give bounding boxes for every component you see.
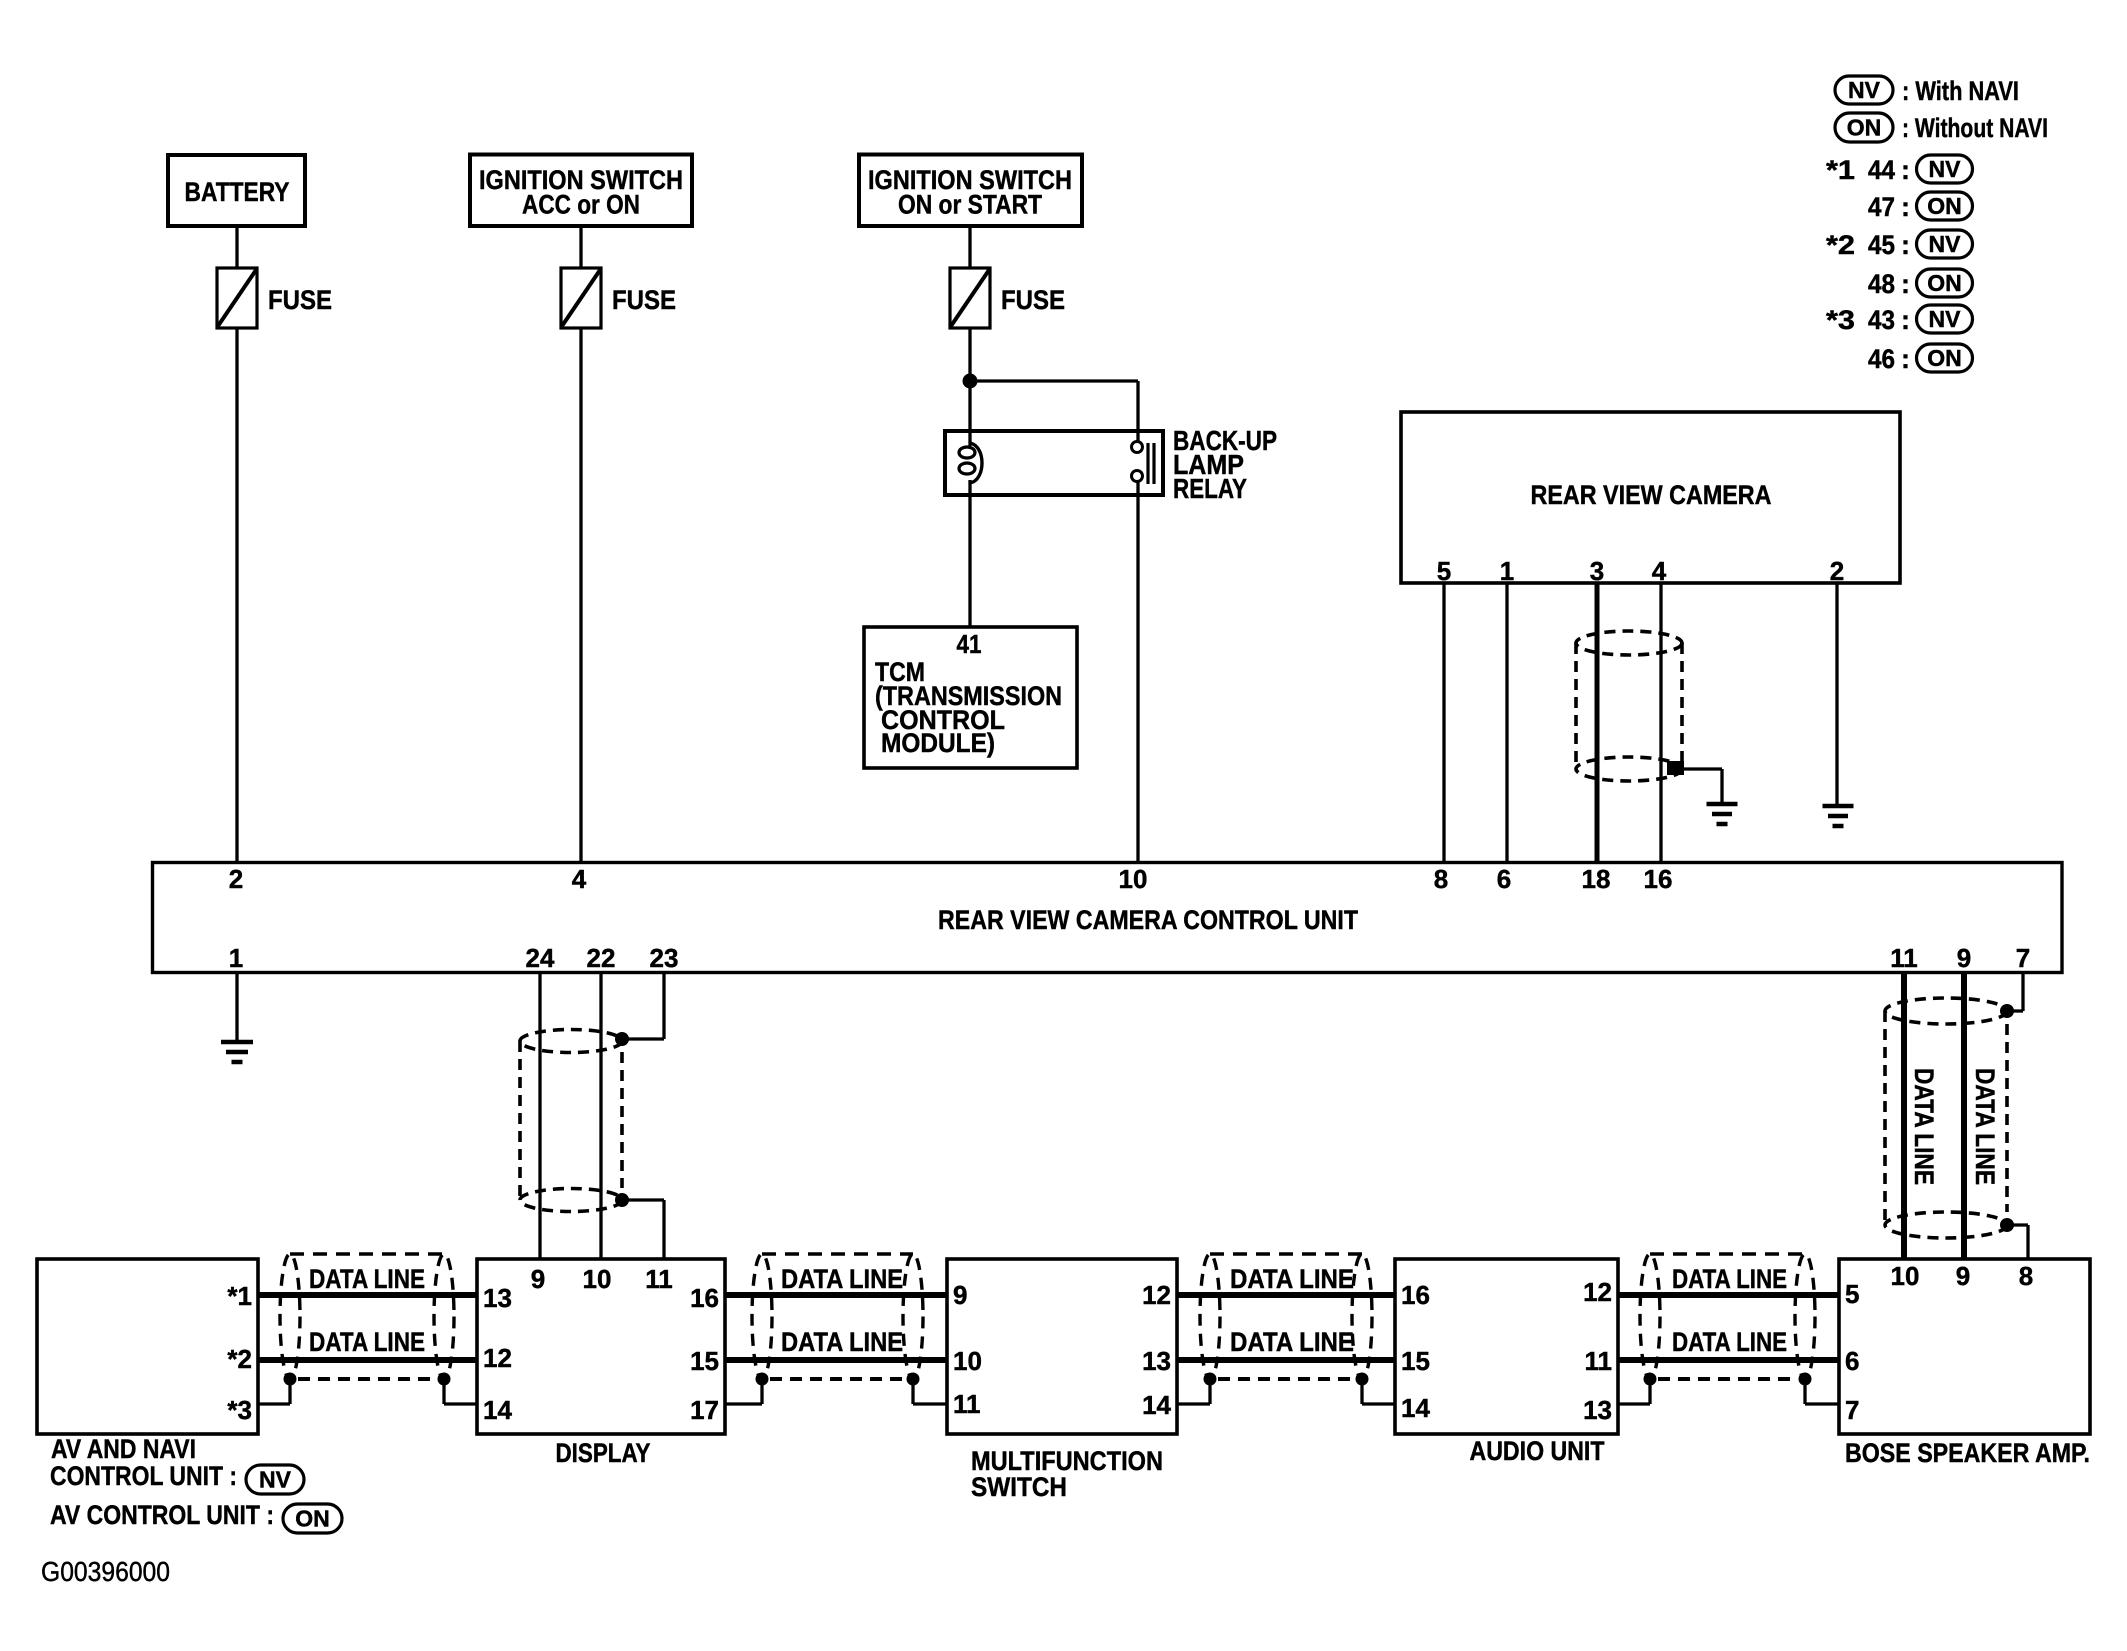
svg-text:BOSE SPEAKER AMP.: BOSE SPEAKER AMP. — [1845, 1438, 2090, 1468]
svg-text:16: 16 — [1644, 864, 1673, 894]
svg-text:8: 8 — [2019, 1261, 2033, 1291]
svg-text:DATA LINE: DATA LINE — [781, 1264, 903, 1294]
svg-text:12: 12 — [483, 1343, 512, 1373]
svg-text:ACC or ON: ACC or ON — [522, 190, 640, 220]
svg-text:13: 13 — [1142, 1346, 1171, 1376]
svg-text:REAR VIEW CAMERA: REAR VIEW CAMERA — [1531, 480, 1772, 510]
svg-text:5: 5 — [1845, 1279, 1859, 1309]
svg-text:NV: NV — [1929, 231, 1962, 257]
svg-text:*1: *1 — [1826, 155, 1855, 185]
svg-text:12: 12 — [1583, 1277, 1612, 1307]
svg-text:10: 10 — [953, 1346, 982, 1376]
svg-text:AV CONTROL UNIT :: AV CONTROL UNIT : — [50, 1500, 274, 1530]
svg-text:14: 14 — [1142, 1390, 1171, 1420]
svg-text:: With NAVI: : With NAVI — [1902, 76, 2019, 106]
svg-text:9: 9 — [1957, 943, 1971, 973]
svg-text::: : — [1901, 192, 1910, 222]
svg-text:*3: *3 — [227, 1395, 252, 1425]
svg-text:NV: NV — [1929, 156, 1962, 182]
svg-text:13: 13 — [483, 1283, 512, 1313]
svg-text:DATA LINE: DATA LINE — [781, 1327, 903, 1357]
svg-text:DATA LINE: DATA LINE — [1672, 1327, 1787, 1357]
svg-text:SWITCH: SWITCH — [971, 1472, 1067, 1502]
svg-text:41: 41 — [957, 629, 982, 659]
svg-text:48: 48 — [1868, 269, 1895, 299]
svg-text:ON: ON — [1927, 193, 1962, 219]
svg-text::: : — [1901, 269, 1910, 299]
svg-text:*1: *1 — [227, 1281, 252, 1311]
svg-text:16: 16 — [690, 1283, 719, 1313]
svg-text:2: 2 — [229, 864, 243, 894]
svg-text:10: 10 — [1119, 864, 1148, 894]
svg-text:NV: NV — [1929, 306, 1962, 332]
svg-text:11: 11 — [1585, 1346, 1613, 1376]
svg-text:NV: NV — [259, 1467, 292, 1493]
svg-text:DATA LINE: DATA LINE — [1230, 1327, 1354, 1357]
svg-text:24: 24 — [526, 943, 555, 973]
svg-text::: : — [1901, 305, 1910, 335]
svg-text:FUSE: FUSE — [612, 285, 676, 315]
svg-text:ON: ON — [1927, 270, 1962, 296]
svg-text:12: 12 — [1142, 1280, 1171, 1310]
svg-text:10: 10 — [1891, 1261, 1920, 1291]
svg-text:ON: ON — [295, 1506, 330, 1532]
svg-text:FUSE: FUSE — [1001, 285, 1065, 315]
svg-text:15: 15 — [1401, 1346, 1430, 1376]
svg-text:BATTERY: BATTERY — [185, 177, 290, 207]
svg-text:*2: *2 — [227, 1344, 252, 1374]
svg-text:4: 4 — [1652, 556, 1667, 586]
svg-text:*2: *2 — [1826, 230, 1855, 260]
svg-text:RELAY: RELAY — [1173, 473, 1247, 504]
svg-text:22: 22 — [587, 943, 616, 973]
svg-text::: : — [1901, 230, 1910, 260]
svg-text:1: 1 — [229, 943, 243, 973]
svg-text:43: 43 — [1868, 305, 1895, 335]
svg-text:NV: NV — [1848, 77, 1881, 103]
svg-text:DISPLAY: DISPLAY — [556, 1438, 651, 1468]
svg-text:*3: *3 — [1826, 305, 1855, 335]
svg-text:9: 9 — [953, 1280, 967, 1310]
svg-text:6: 6 — [1845, 1346, 1859, 1376]
svg-text:2: 2 — [1830, 556, 1844, 586]
svg-text:9: 9 — [531, 1264, 545, 1294]
svg-text:AV AND NAVI: AV AND NAVI — [51, 1434, 196, 1464]
svg-text:5: 5 — [1437, 556, 1451, 586]
svg-text:1: 1 — [1500, 556, 1514, 586]
svg-text::: : — [1901, 155, 1910, 185]
svg-text:3: 3 — [1590, 556, 1604, 586]
svg-text:FUSE: FUSE — [268, 285, 332, 315]
svg-text:9: 9 — [1956, 1261, 1970, 1291]
svg-text:16: 16 — [1401, 1280, 1430, 1310]
svg-text:DATA LINE: DATA LINE — [1970, 1068, 2000, 1185]
svg-text:: Without NAVI: : Without NAVI — [1902, 113, 2048, 143]
svg-text:18: 18 — [1582, 864, 1611, 894]
svg-text:15: 15 — [690, 1346, 719, 1376]
svg-text:44: 44 — [1868, 155, 1895, 185]
svg-text:45: 45 — [1868, 230, 1895, 260]
svg-text:14: 14 — [483, 1395, 512, 1425]
svg-text:ON or START: ON or START — [898, 190, 1042, 220]
svg-text:ON: ON — [1847, 115, 1882, 141]
svg-text:11: 11 — [645, 1264, 673, 1294]
svg-text:ON: ON — [1927, 345, 1962, 371]
svg-text:DATA LINE: DATA LINE — [309, 1264, 425, 1294]
svg-text:17: 17 — [690, 1395, 719, 1425]
svg-text:14: 14 — [1401, 1393, 1430, 1423]
svg-text:13: 13 — [1583, 1395, 1612, 1425]
svg-text:DATA LINE: DATA LINE — [1909, 1068, 1939, 1185]
svg-text:REAR VIEW CAMERA CONTROL UNIT: REAR VIEW CAMERA CONTROL UNIT — [938, 905, 1358, 935]
svg-text:11: 11 — [1890, 943, 1918, 973]
svg-text:23: 23 — [650, 943, 679, 973]
svg-text:CONTROL UNIT :: CONTROL UNIT : — [50, 1461, 237, 1491]
svg-text::: : — [1901, 344, 1910, 374]
svg-text:G00396000: G00396000 — [41, 1556, 170, 1587]
svg-text:DATA LINE: DATA LINE — [1672, 1264, 1787, 1294]
svg-text:8: 8 — [1434, 864, 1448, 894]
svg-text:46: 46 — [1868, 344, 1895, 374]
svg-text:DATA LINE: DATA LINE — [1230, 1264, 1354, 1294]
svg-text:AUDIO UNIT: AUDIO UNIT — [1470, 1436, 1605, 1466]
svg-text:47: 47 — [1868, 192, 1895, 222]
svg-text:6: 6 — [1497, 864, 1511, 894]
svg-text:MODULE): MODULE) — [881, 728, 995, 758]
svg-text:10: 10 — [583, 1264, 612, 1294]
svg-text:11: 11 — [953, 1389, 981, 1419]
svg-text:4: 4 — [572, 864, 587, 894]
svg-text:7: 7 — [2016, 943, 2030, 973]
svg-text:DATA LINE: DATA LINE — [309, 1327, 425, 1357]
svg-text:7: 7 — [1845, 1395, 1859, 1425]
